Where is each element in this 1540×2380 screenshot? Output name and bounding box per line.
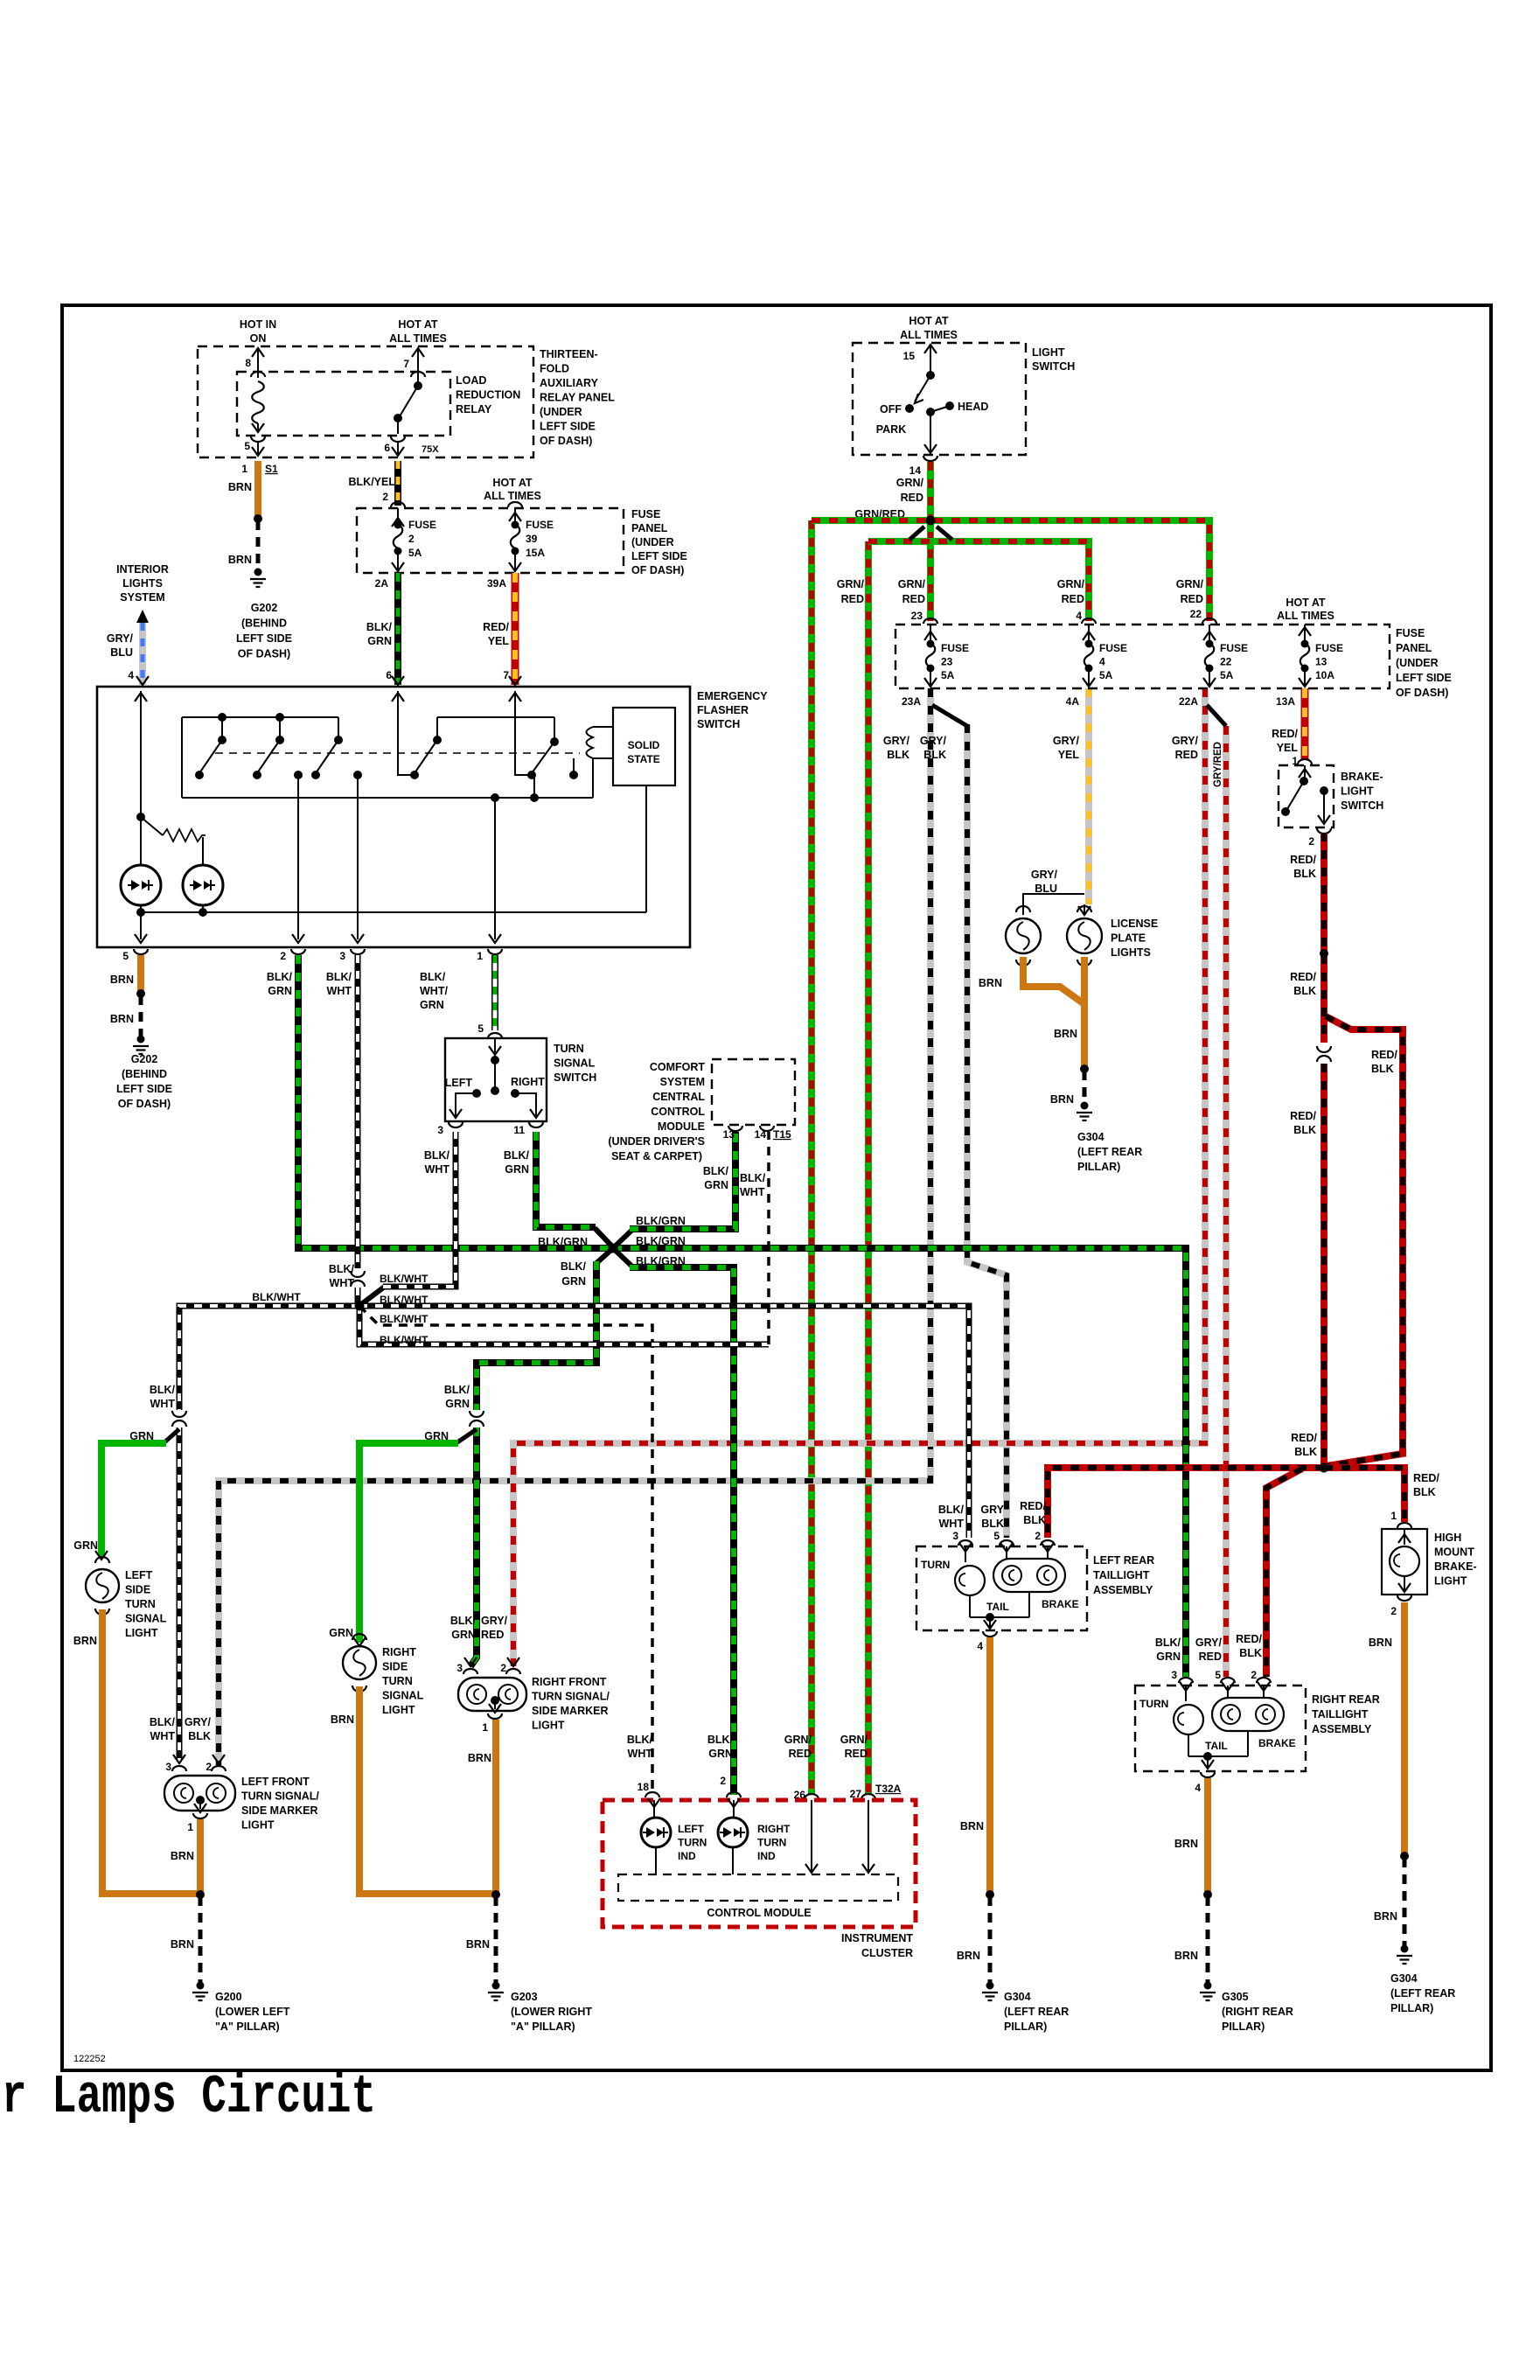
svg-text:FUSE: FUSE — [631, 508, 660, 520]
wire GRY/BLU interior lights to flasher pin 4 — [139, 623, 146, 685]
svg-text:IND: IND — [678, 1850, 696, 1862]
svg-text:5: 5 — [122, 950, 129, 962]
svg-text:BLK/WHT: BLK/WHT — [380, 1294, 429, 1306]
svg-text:ALL TIMES: ALL TIMES — [1277, 610, 1334, 622]
svg-text:BLK/: BLK/ — [627, 1734, 653, 1746]
wire BLK/GRN fuse 2A to flasher pin 6 — [394, 573, 401, 685]
svg-text:BLK/: BLK/ — [326, 971, 352, 983]
wire BLK/WHT junction to turn signal pin 3 — [360, 1286, 386, 1305]
svg-text:GRN: GRN — [268, 985, 292, 997]
wire GRN/RED branch to fuse 4 — [868, 541, 1089, 621]
svg-text:LIGHTS: LIGHTS — [122, 577, 163, 590]
svg-text:LOAD: LOAD — [456, 374, 486, 387]
svg-text:SIDE: SIDE — [125, 1584, 150, 1596]
svg-text:BRN: BRN — [1050, 1093, 1074, 1106]
svg-text:RED/: RED/ — [1371, 1049, 1397, 1061]
svg-text:GRN: GRN — [420, 999, 444, 1011]
svg-text:SYSTEM: SYSTEM — [660, 1076, 705, 1088]
light switch pin 14 — [923, 456, 937, 461]
svg-text:2: 2 — [382, 491, 388, 503]
svg-text:RED: RED — [902, 593, 925, 605]
svg-text:BLK/: BLK/ — [329, 1263, 355, 1275]
svg-text:SEAT & CARPET): SEAT & CARPET) — [611, 1150, 702, 1162]
svg-text:11: 11 — [513, 1124, 525, 1136]
svg-text:BLK/: BLK/ — [450, 1615, 477, 1627]
svg-text:INTERIOR: INTERIOR — [116, 563, 169, 576]
svg-text:GRN: GRN — [505, 1163, 529, 1176]
svg-text:13: 13 — [723, 1128, 735, 1141]
svg-text:WHT: WHT — [740, 1186, 765, 1198]
wire BRN ground lead to G305 — [1206, 1896, 1210, 1984]
light switch box — [853, 343, 1026, 455]
svg-text:BLK: BLK — [1239, 1647, 1262, 1659]
wire GRN/RED to instrument cluster pin 27 — [865, 541, 872, 1795]
svg-text:BRAKE-: BRAKE- — [1434, 1560, 1477, 1573]
svg-text:BRN: BRN — [1174, 1950, 1198, 1962]
svg-text:LIGHT: LIGHT — [125, 1627, 158, 1639]
svg-text:23A: 23A — [902, 695, 921, 708]
svg-text:10A: 10A — [1315, 669, 1334, 681]
right rear taillight assembly box — [1135, 1686, 1306, 1771]
flasher resistor — [141, 817, 163, 835]
right rear tail/brake lamps — [1227, 1686, 1229, 1698]
svg-text:r Lamps Circuit: r Lamps Circuit — [2, 2066, 376, 2128]
right turn indicator — [733, 1800, 735, 1818]
svg-text:TURN: TURN — [382, 1675, 413, 1687]
wire BRN right side light to splice — [359, 1686, 492, 1894]
svg-text:LEFT: LEFT — [678, 1823, 705, 1835]
in-line connector on BLK/WHT — [351, 1271, 365, 1277]
svg-text:TURN: TURN — [554, 1043, 584, 1055]
ground G304 left rear — [986, 1982, 994, 1990]
in-line connector on RED/BLK — [1317, 1046, 1331, 1052]
flasher lower bus — [141, 911, 646, 913]
svg-text:(LEFT REAR: (LEFT REAR — [1390, 1987, 1455, 2000]
svg-text:SIDE: SIDE — [382, 1661, 408, 1673]
svg-text:RED/: RED/ — [1290, 854, 1316, 866]
svg-text:HIGH: HIGH — [1434, 1532, 1461, 1544]
svg-text:SIGNAL: SIGNAL — [554, 1057, 596, 1070]
brake-light switch box — [1279, 765, 1334, 827]
svg-text:GRN: GRN — [1156, 1651, 1181, 1663]
svg-text:BLK/: BLK/ — [267, 971, 293, 983]
svg-text:LEFT REAR: LEFT REAR — [1093, 1554, 1154, 1567]
wire BRN below relay pin 5/S1 — [254, 461, 261, 516]
node GRN/RED junction — [926, 516, 936, 526]
wire RED/BLK loop via right column — [1326, 1016, 1403, 1466]
svg-text:BLK/: BLK/ — [740, 1172, 766, 1184]
svg-text:BRN: BRN — [1054, 1028, 1077, 1040]
instrument cluster box — [603, 1800, 916, 1927]
svg-text:6: 6 — [386, 669, 392, 681]
thirteen-fold auxiliary relay panel box — [198, 346, 533, 457]
svg-text:OF DASH): OF DASH) — [631, 564, 684, 576]
svg-text:TURN: TURN — [678, 1837, 707, 1849]
svg-text:TAIL: TAIL — [986, 1601, 1009, 1613]
svg-text:TURN SIGNAL/: TURN SIGNAL/ — [241, 1790, 319, 1803]
svg-text:CENTRAL: CENTRAL — [652, 1091, 705, 1103]
fuse 22 5A — [1202, 618, 1216, 624]
wire GRN/RED junction west to cluster feed / east to fuse 22 — [812, 520, 1209, 621]
svg-text:G304: G304 — [1390, 1972, 1418, 1985]
svg-text:LIGHT: LIGHT — [382, 1704, 415, 1716]
svg-text:RIGHT: RIGHT — [382, 1646, 416, 1658]
left front turn signal/side marker light — [164, 1776, 235, 1811]
svg-text:GRY/: GRY/ — [107, 632, 134, 645]
svg-text:G305: G305 — [1222, 1991, 1249, 2003]
svg-text:REDUCTION: REDUCTION — [456, 389, 520, 401]
svg-text:ASSEMBLY: ASSEMBLY — [1312, 1723, 1372, 1735]
wire GRY/BLK fuse 23A to left front turn signal pin 2 — [219, 688, 930, 1765]
svg-text:2: 2 — [1390, 1605, 1397, 1617]
svg-text:122252: 122252 — [73, 2054, 106, 2064]
svg-text:GRY: GRY — [980, 1504, 1004, 1516]
wire BLK/WHT flasher pin 3 to junction — [355, 955, 361, 1268]
svg-text:2: 2 — [1035, 1530, 1041, 1542]
svg-text:(LOWER LEFT: (LOWER LEFT — [215, 2006, 290, 2018]
svg-text:FUSE: FUSE — [408, 519, 436, 531]
node on RED/BLK — [1320, 949, 1328, 958]
svg-text:2: 2 — [1251, 1669, 1257, 1681]
svg-text:RED: RED — [789, 1748, 812, 1760]
svg-text:BLK: BLK — [1293, 985, 1316, 997]
svg-text:PILLAR): PILLAR) — [1077, 1161, 1120, 1173]
svg-text:GRN: GRN — [129, 1430, 154, 1442]
svg-text:22: 22 — [1220, 656, 1232, 668]
svg-text:SOLID: SOLID — [628, 739, 660, 751]
svg-text:FUSE: FUSE — [526, 519, 554, 531]
wire BLK/GRN junction to instrument cluster pin 2 — [614, 1249, 632, 1267]
relay pin 6 — [397, 418, 399, 434]
svg-text:GRY/: GRY/ — [481, 1615, 508, 1627]
svg-text:HOT IN: HOT IN — [240, 318, 276, 331]
svg-text:GRN: GRN — [451, 1629, 476, 1641]
svg-text:3: 3 — [437, 1124, 443, 1136]
left side turn signal light — [86, 1569, 119, 1602]
flasher switch 4 — [436, 717, 438, 740]
flasher indicator lamp right — [183, 865, 223, 905]
svg-text:23: 23 — [911, 610, 923, 622]
wire BLK/WHT junction to left rear taillight pin 3 — [359, 1306, 969, 1538]
svg-text:4A: 4A — [1066, 695, 1080, 708]
svg-text:OF DASH): OF DASH) — [1396, 687, 1448, 699]
svg-text:GRY/: GRY/ — [1031, 869, 1058, 881]
svg-text:BRN: BRN — [1369, 1637, 1392, 1649]
svg-text:WHT: WHT — [150, 1398, 176, 1410]
svg-text:7: 7 — [503, 669, 509, 681]
svg-text:BLK: BLK — [1371, 1063, 1394, 1075]
svg-text:5: 5 — [993, 1530, 1000, 1542]
svg-text:2A: 2A — [375, 577, 389, 590]
license plate lights — [1084, 904, 1085, 915]
wire BRN left side light to splice — [102, 1609, 197, 1894]
wire BLK/YEL relay to fuse 2 — [394, 461, 401, 506]
svg-text:FUSE: FUSE — [941, 642, 969, 654]
load reduction relay box — [237, 372, 450, 436]
svg-text:23: 23 — [941, 656, 953, 668]
svg-text:3: 3 — [952, 1530, 958, 1542]
svg-text:(LEFT REAR: (LEFT REAR — [1077, 1146, 1142, 1158]
wire GRN/RED to instrument cluster pin 26 — [808, 520, 815, 1795]
svg-text:15A: 15A — [526, 547, 545, 559]
wire RED/BLK splice to left rear taillight pin 2 — [1048, 1468, 1324, 1538]
svg-text:(UNDER: (UNDER — [631, 536, 674, 548]
svg-text:BRN: BRN — [1374, 1910, 1397, 1923]
svg-text:FLASHER: FLASHER — [697, 704, 749, 716]
svg-text:BLK/GRN: BLK/GRN — [538, 1236, 588, 1248]
wire BRN left rear taillight to splice — [986, 1637, 993, 1893]
wire GRY/RED fuse 22A to right front turn signal pin 2 — [513, 688, 1205, 1666]
svg-text:RED/: RED/ — [1291, 1432, 1317, 1444]
svg-text:PARK: PARK — [876, 423, 907, 436]
flasher pin 5 internal — [140, 912, 142, 939]
light switch pin 15 — [930, 345, 931, 375]
svg-text:LEFT SIDE: LEFT SIDE — [540, 421, 596, 433]
wire BRN license lamp left — [1023, 957, 1084, 1004]
svg-text:BRN: BRN — [957, 1950, 980, 1962]
svg-text:GRY/: GRY/ — [185, 1716, 212, 1728]
svg-text:RED/: RED/ — [1272, 728, 1298, 740]
svg-text:RELAY: RELAY — [456, 403, 492, 415]
svg-text:"A" PILLAR): "A" PILLAR) — [511, 2021, 575, 2033]
splice node — [1080, 1064, 1089, 1073]
svg-text:3: 3 — [339, 950, 345, 962]
svg-text:RED/: RED/ — [1236, 1633, 1262, 1645]
ground G305 — [1204, 1982, 1212, 1990]
svg-text:BRN: BRN — [171, 1938, 194, 1951]
svg-text:GRN/: GRN/ — [896, 477, 924, 489]
fuse panel (right) box — [895, 625, 1390, 688]
svg-text:LICENSE: LICENSE — [1111, 918, 1158, 930]
svg-text:OFF: OFF — [880, 403, 902, 415]
svg-text:8: 8 — [245, 357, 251, 369]
wire BLK/WHT comfort module pin 14 lead — [767, 1132, 770, 1344]
high mount brakelight box — [1382, 1529, 1427, 1595]
wire BRN license lamp right to G304 — [1081, 957, 1088, 1067]
node BRN splice left — [196, 1890, 205, 1899]
svg-text:(BEHIND: (BEHIND — [122, 1068, 167, 1080]
svg-text:GRN: GRN — [704, 1179, 728, 1191]
svg-text:BRN: BRN — [110, 974, 134, 986]
svg-text:GRY/: GRY/ — [883, 735, 910, 747]
svg-text:39A: 39A — [487, 577, 506, 590]
svg-text:4: 4 — [1076, 610, 1082, 622]
svg-text:BRAKE: BRAKE — [1042, 1598, 1079, 1610]
svg-text:SIGNAL: SIGNAL — [382, 1690, 424, 1702]
svg-text:G202: G202 — [131, 1053, 158, 1065]
svg-text:CONTROL MODULE: CONTROL MODULE — [707, 1907, 811, 1919]
wire BLK/WHT junction to turn signal switch pin 3 — [383, 1132, 456, 1287]
svg-text:LEFT SIDE: LEFT SIDE — [631, 550, 687, 562]
wire GRY/RED fuse 22A branch to right rear taillight pin 5 — [1223, 726, 1230, 1677]
svg-text:SIDE MARKER: SIDE MARKER — [241, 1804, 318, 1817]
svg-text:GRN: GRN — [424, 1430, 449, 1442]
svg-text:YEL: YEL — [1058, 749, 1080, 761]
wire BRN right front pin 1 to splice — [492, 1720, 499, 1894]
comfort module pins 13 14 T15 — [728, 1126, 742, 1131]
svg-text:LIGHT: LIGHT — [532, 1720, 565, 1732]
svg-text:G202: G202 — [251, 602, 278, 614]
svg-text:RED: RED — [1199, 1651, 1222, 1663]
svg-text:BLK/: BLK/ — [150, 1716, 176, 1728]
svg-text:COMFORT: COMFORT — [650, 1061, 706, 1073]
svg-text:HOT AT: HOT AT — [492, 477, 532, 489]
svg-text:BRAKE: BRAKE — [1258, 1737, 1296, 1749]
flasher bottom bus — [182, 797, 593, 799]
flasher switch 1 — [221, 717, 223, 740]
svg-text:PANEL: PANEL — [631, 522, 668, 534]
svg-text:2: 2 — [720, 1775, 726, 1787]
svg-text:BLU: BLU — [1035, 883, 1057, 895]
svg-text:G203: G203 — [511, 1991, 538, 2003]
svg-text:ALL TIMES: ALL TIMES — [484, 490, 541, 502]
svg-text:SIGNAL: SIGNAL — [125, 1613, 167, 1625]
border frame — [62, 305, 1491, 2070]
svg-text:RED: RED — [901, 492, 923, 504]
svg-text:BLK/WHT: BLK/WHT — [380, 1334, 429, 1346]
svg-text:FUSE: FUSE — [1099, 642, 1127, 654]
svg-text:S1: S1 — [265, 463, 278, 475]
wire BRN ground lead to G304 high mount — [1403, 1858, 1407, 1947]
wire BLK/GRN X junction to comfort module pin 13 — [630, 1132, 735, 1229]
svg-text:HOT AT: HOT AT — [1286, 597, 1325, 609]
wire BRN ground lead to G304 — [1083, 1071, 1087, 1104]
svg-text:SWITCH: SWITCH — [1032, 360, 1075, 373]
svg-text:GRN: GRN — [367, 635, 392, 647]
svg-text:TURN: TURN — [125, 1598, 156, 1610]
svg-text:LIGHT: LIGHT — [1341, 785, 1374, 798]
svg-text:RIGHT: RIGHT — [511, 1076, 545, 1088]
svg-text:PLATE: PLATE — [1111, 932, 1146, 945]
svg-text:TAILLIGHT: TAILLIGHT — [1093, 1569, 1150, 1581]
left rear turn lamp — [965, 1546, 966, 1562]
flasher contact to coil — [569, 771, 578, 779]
flasher pin 6 internal — [398, 691, 415, 775]
wire RED/BLK connector down to splice — [1320, 1064, 1327, 1466]
wire BRN ground lead to G202 — [256, 520, 261, 569]
svg-text:GRN/: GRN/ — [898, 578, 926, 590]
svg-text:SWITCH: SWITCH — [1341, 799, 1383, 812]
svg-text:G304: G304 — [1004, 1991, 1031, 2003]
fuse 4 5A — [1082, 618, 1096, 624]
flasher switch 3 — [338, 717, 339, 740]
svg-text:14: 14 — [755, 1128, 767, 1141]
svg-text:FOLD: FOLD — [540, 363, 569, 375]
svg-text:TURN: TURN — [921, 1559, 950, 1571]
turn signal switch box — [445, 1038, 547, 1121]
svg-text:LIGHT: LIGHT — [1032, 346, 1065, 359]
svg-text:BLK: BLK — [1294, 1446, 1317, 1458]
svg-text:TURN SIGNAL/: TURN SIGNAL/ — [532, 1691, 610, 1703]
svg-text:BRAKE-: BRAKE- — [1341, 771, 1383, 783]
svg-text:PILLAR): PILLAR) — [1390, 2002, 1433, 2014]
wire BRN flasher pin 5 — [137, 955, 144, 991]
svg-text:(LEFT REAR: (LEFT REAR — [1004, 2006, 1069, 2018]
svg-text:TURN: TURN — [1139, 1698, 1168, 1710]
svg-text:CLUSTER: CLUSTER — [861, 1947, 913, 1959]
svg-text:BLK/: BLK/ — [366, 621, 393, 633]
flasher linkage dashed — [215, 752, 580, 754]
fuse 2 5A — [391, 502, 405, 507]
svg-text:LIGHT: LIGHT — [1434, 1575, 1467, 1588]
svg-text:1: 1 — [482, 1721, 488, 1734]
svg-text:HOT AT: HOT AT — [398, 318, 437, 331]
svg-text:HOT AT: HOT AT — [909, 315, 948, 327]
svg-text:BLK/: BLK/ — [420, 971, 446, 983]
svg-text:39: 39 — [526, 533, 538, 545]
flasher pin 1 internal — [494, 798, 496, 939]
node RED/BLK splice — [1320, 1463, 1329, 1473]
left rear taillight assembly box — [916, 1546, 1087, 1630]
svg-text:FUSE: FUSE — [1396, 627, 1425, 639]
svg-text:GRN/: GRN/ — [784, 1734, 812, 1746]
splice node — [136, 989, 145, 998]
svg-text:GRY/RED: GRY/RED — [1213, 742, 1223, 787]
svg-text:GRN/: GRN/ — [837, 578, 865, 590]
svg-text:ALL TIMES: ALL TIMES — [389, 332, 447, 345]
wire BRN high mount brakelight to splice — [1401, 1602, 1408, 1854]
svg-text:WHT/: WHT/ — [420, 985, 448, 997]
relay coil — [252, 381, 264, 423]
svg-text:SYSTEM: SYSTEM — [120, 591, 164, 604]
svg-text:BLK/: BLK/ — [444, 1384, 470, 1396]
ground G304 high mount — [1401, 1945, 1409, 1953]
svg-text:HEAD: HEAD — [958, 401, 988, 413]
right side turn signal light — [343, 1646, 376, 1679]
svg-text:GRN: GRN — [708, 1748, 733, 1760]
ground G202 (lower) — [137, 1036, 145, 1043]
svg-text:OF DASH): OF DASH) — [118, 1098, 171, 1110]
light switch contacts — [926, 371, 935, 380]
svg-text:BLK/: BLK/ — [504, 1149, 530, 1162]
svg-text:WHT: WHT — [330, 1277, 355, 1289]
svg-text:RIGHT FRONT: RIGHT FRONT — [532, 1676, 607, 1688]
svg-text:BLK/: BLK/ — [703, 1165, 729, 1177]
svg-text:RIGHT: RIGHT — [757, 1823, 791, 1835]
splice 23A branch — [932, 705, 967, 726]
splice node on BRN — [254, 514, 262, 523]
svg-text:LEFT: LEFT — [445, 1077, 473, 1089]
wire BRN ground lead to G203 — [494, 1896, 498, 1984]
svg-text:BLK/GRN: BLK/GRN — [636, 1255, 686, 1267]
svg-text:14: 14 — [909, 464, 922, 477]
svg-text:BRN: BRN — [468, 1752, 491, 1764]
svg-text:3: 3 — [165, 1761, 171, 1773]
svg-text:BRN: BRN — [979, 977, 1002, 989]
svg-text:1: 1 — [477, 950, 483, 962]
svg-text:RIGHT REAR: RIGHT REAR — [1312, 1693, 1380, 1706]
wire BLK/GRN flasher pin 2 to X junction — [298, 955, 613, 1248]
svg-text:BLK/: BLK/ — [561, 1260, 587, 1273]
svg-text:6: 6 — [384, 442, 390, 454]
svg-text:GRN: GRN — [329, 1627, 353, 1639]
wire BRN right rear taillight to splice — [1204, 1778, 1211, 1893]
left rear internal ground bus — [969, 1595, 971, 1617]
svg-text:BLK/WHT: BLK/WHT — [380, 1273, 429, 1285]
svg-text:TAILLIGHT: TAILLIGHT — [1312, 1708, 1369, 1720]
svg-text:1: 1 — [187, 1821, 193, 1833]
svg-text:BLK/WHT: BLK/WHT — [252, 1291, 301, 1303]
wire BRN left front pin 1 to splice — [197, 1819, 204, 1894]
svg-text:3: 3 — [1171, 1669, 1177, 1681]
svg-text:IND: IND — [757, 1850, 776, 1862]
svg-text:BRN: BRN — [331, 1713, 354, 1726]
right rear internal ground bus — [1188, 1734, 1189, 1756]
svg-text:(LOWER RIGHT: (LOWER RIGHT — [511, 2006, 592, 2018]
svg-text:LIGHTS: LIGHTS — [1111, 946, 1151, 959]
svg-text:75X: 75X — [422, 444, 439, 455]
svg-text:ALL TIMES: ALL TIMES — [900, 329, 958, 341]
